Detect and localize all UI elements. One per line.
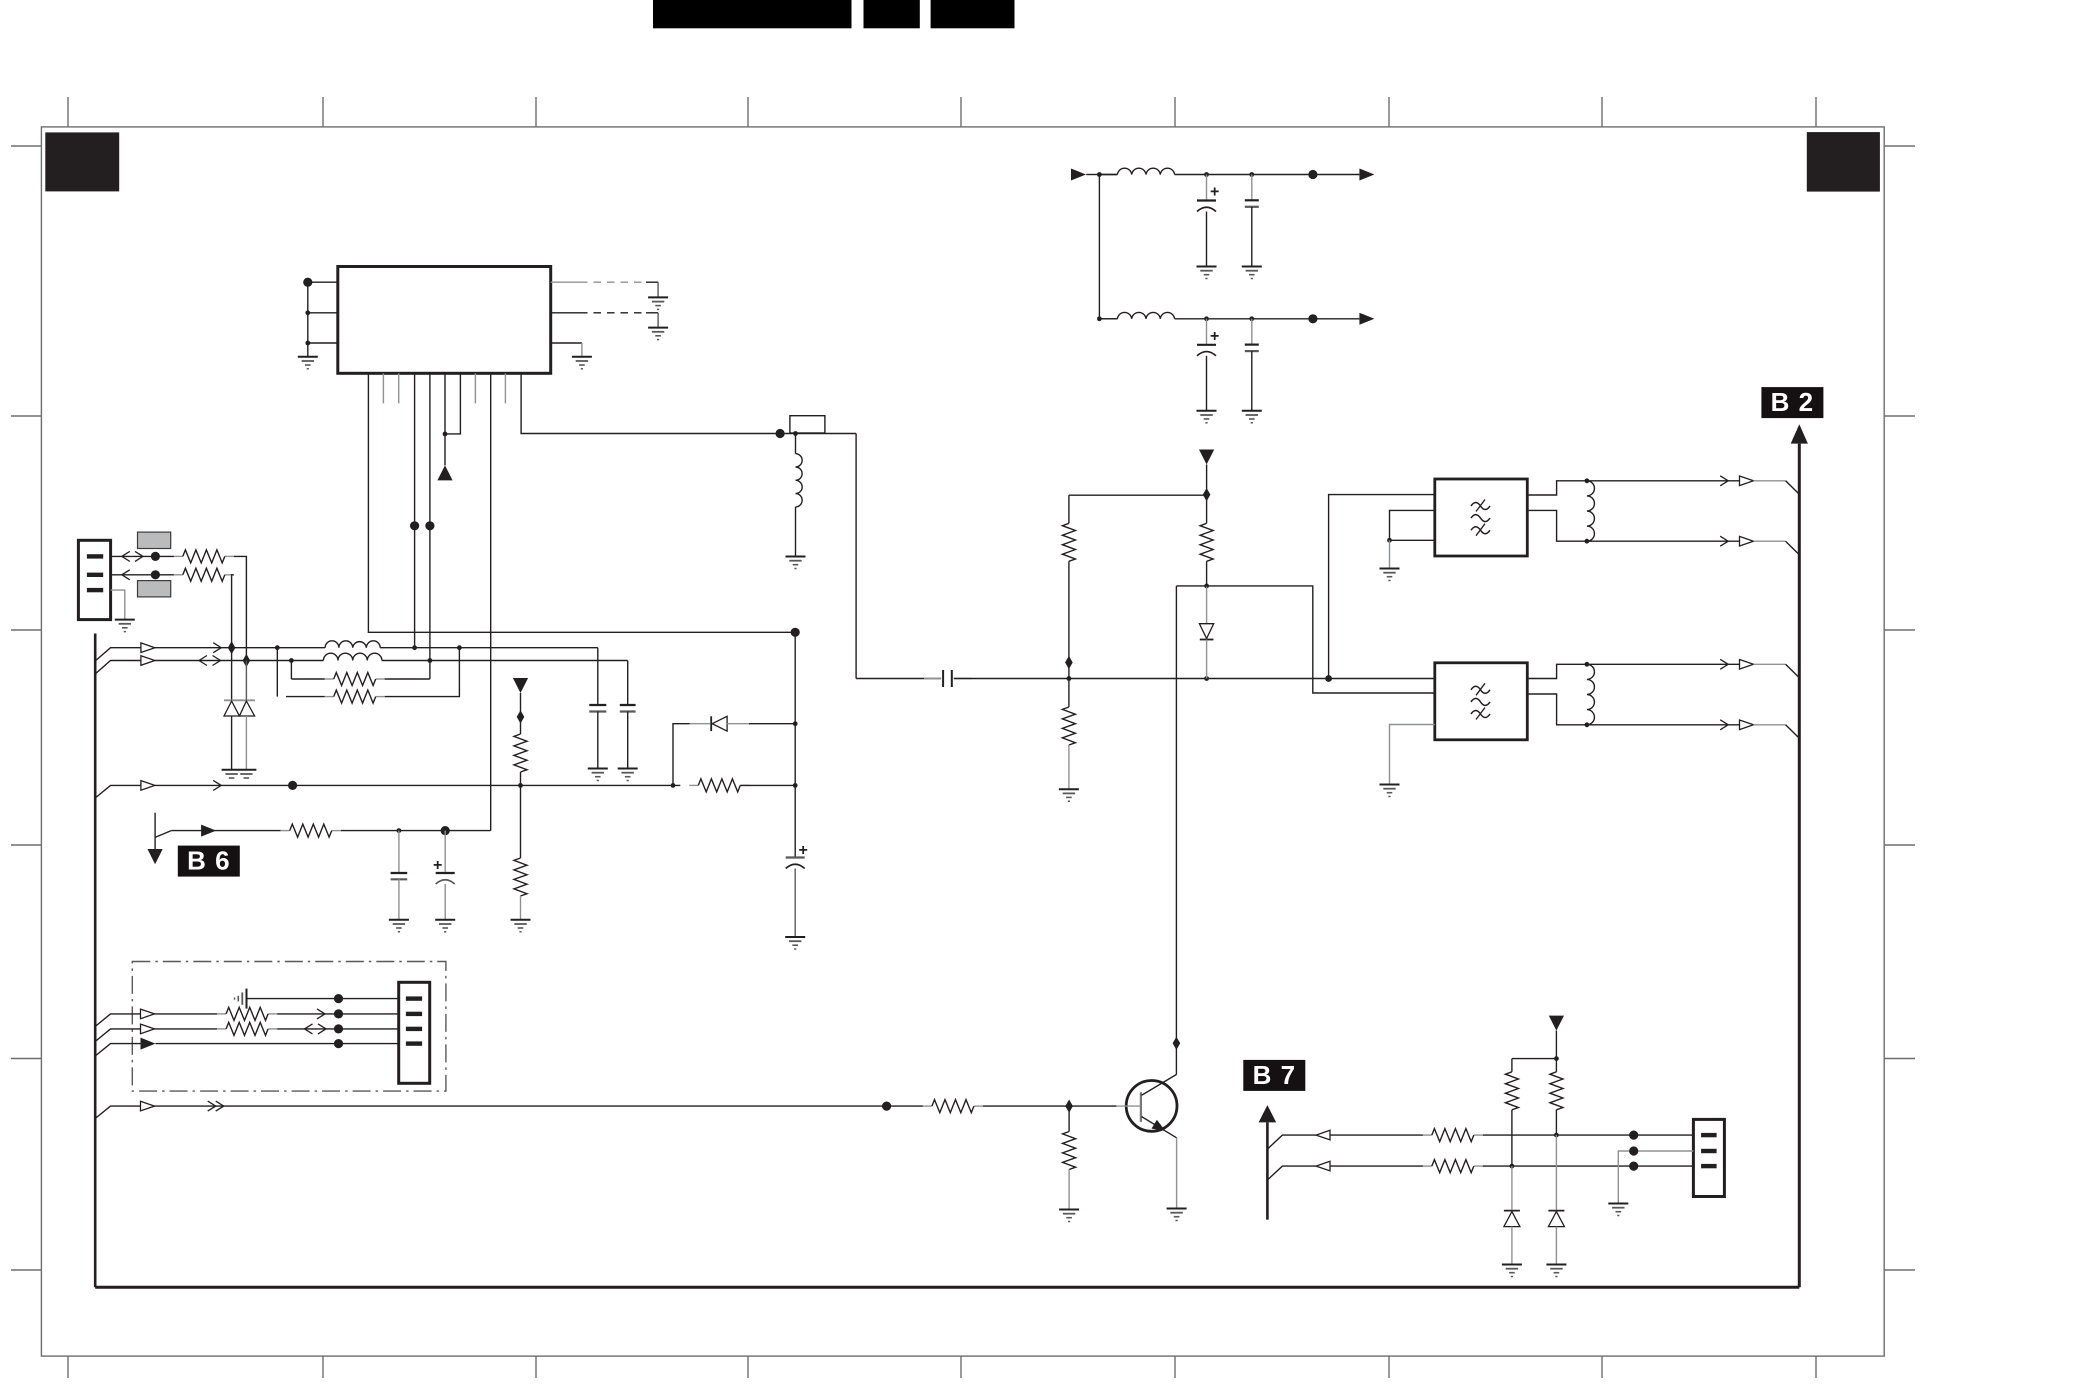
cable bundle bus <box>94 634 97 1288</box>
svg-text:B 6: B 6 <box>187 846 230 876</box>
resistor R7 series line3 <box>689 784 698 786</box>
inductor L7 <box>1117 168 1174 174</box>
wire FL2 gnd pin <box>1390 725 1435 785</box>
resistor R13 <box>1200 523 1213 561</box>
redaction box top-right corner <box>1807 132 1880 192</box>
resistor R10 <box>520 785 522 858</box>
connector J1 <box>78 540 110 619</box>
wire collector <box>1175 586 1177 1075</box>
ground G10 <box>1380 569 1400 581</box>
output arrow row 2 <box>1359 313 1374 325</box>
test diamond <box>517 710 525 723</box>
redaction bar top 3 <box>931 0 1015 28</box>
wire feed to B2 at 480.8 <box>1587 480 1740 482</box>
test diamond <box>1065 656 1073 669</box>
ground G18 <box>389 920 409 932</box>
wire R2 to line1 <box>232 575 234 648</box>
ground G20 <box>785 937 805 949</box>
wire J3 middle pin to ground <box>1618 1151 1693 1204</box>
connector J3 <box>1693 1119 1724 1196</box>
capacitor C3 electrolytic <box>1206 319 1208 345</box>
wire B7 line1 <box>1267 1135 1316 1149</box>
dual diode Z1 <box>231 648 233 701</box>
ground G11 <box>115 620 135 632</box>
wire fuse line to corner <box>780 433 856 435</box>
ground G27 sideways <box>235 989 247 1009</box>
U1 pin stub 8 <box>474 373 476 403</box>
arrow B7 up <box>1259 1105 1277 1122</box>
diode D2 <box>673 724 690 786</box>
test diamond line2 <box>243 654 251 667</box>
diode D3 <box>1511 1166 1513 1210</box>
wire U1 right pin B dashed <box>551 312 580 314</box>
wire U1 pin11 to fuse line <box>521 373 780 433</box>
wire U1 pin left 3 <box>308 342 338 344</box>
wire R1 to line2 <box>234 556 247 660</box>
resistor R9 <box>514 734 527 772</box>
wire emitter to ground <box>1176 1138 1178 1209</box>
redaction bar top 1 <box>653 0 852 28</box>
wire U1 pin6 supply arrow <box>444 373 446 465</box>
test diamond collector <box>1173 1037 1181 1050</box>
svg-text:+: + <box>1210 328 1219 345</box>
resistor R17 base to ground <box>1068 1106 1070 1131</box>
wire bottom B+ rail <box>95 1286 1799 1289</box>
inductor L3 choke to ground <box>795 434 797 454</box>
ground G16 <box>1059 789 1079 801</box>
wire FL1 in <box>1329 495 1435 679</box>
ground G15 <box>618 769 638 781</box>
filter FL2 <box>1435 663 1528 740</box>
wire J1 pin1 row <box>111 555 174 557</box>
wire main line <box>856 678 941 680</box>
U1 pin stub 2 <box>382 373 384 403</box>
ground G9 <box>786 557 806 569</box>
supply arrow down <box>513 678 528 693</box>
wire feed to B2 at 724.8 <box>1587 724 1740 726</box>
capacitor C1 electrolytic <box>1206 175 1208 201</box>
arrow B2 up <box>1791 424 1808 443</box>
U1 pin stub 10 <box>504 373 506 403</box>
wire J1 pin3 to ground <box>111 590 125 620</box>
wire line5 <box>95 1106 140 1118</box>
resistor R1 <box>174 555 183 557</box>
ground G2 <box>648 297 668 309</box>
wire U1 pin left 2 <box>308 312 338 314</box>
diode D4 <box>1555 1135 1557 1210</box>
wire J2 row2 <box>95 1014 140 1027</box>
wire U1 pin5 <box>429 373 431 679</box>
capacitor C6 <box>398 831 400 873</box>
supply arrow down <box>1549 1016 1564 1031</box>
capacitor C4 ceramic <box>1251 319 1253 345</box>
wire filter row 2 <box>1099 318 1117 320</box>
B6 tag <box>178 846 240 877</box>
resistor R12 <box>1068 679 1070 708</box>
ground G23 <box>1167 1209 1187 1221</box>
border frame <box>41 127 1884 1356</box>
resistor R8 <box>281 830 290 832</box>
wire U1 pin7 <box>445 373 460 434</box>
wire row1 to row2 <box>1098 175 1100 319</box>
wire node column <box>794 632 796 857</box>
wire FL1 out bottom <box>1527 510 1587 541</box>
capacitor C8 coupling <box>942 670 944 687</box>
ground G12 <box>222 769 257 771</box>
resistor R21 <box>1550 1072 1563 1110</box>
ground G25 <box>1502 1265 1522 1277</box>
inductor L6 <box>1587 664 1595 724</box>
resistor R4 parallel line1 <box>276 648 278 697</box>
diode D1 <box>1206 586 1208 624</box>
wire B7 line2 <box>1267 1166 1316 1180</box>
inductor L8 <box>1117 312 1174 318</box>
test diamond base <box>1065 1100 1073 1113</box>
ground G19 <box>435 920 455 932</box>
ground G1 <box>307 343 309 357</box>
ground G6 <box>1242 267 1262 279</box>
wire collector jog line <box>1176 586 1434 693</box>
wire U1 pin left 1 <box>308 281 338 283</box>
output arrow row 1 <box>1359 169 1374 181</box>
ground G7 <box>1197 411 1217 423</box>
shield box SH2 <box>138 581 171 597</box>
inductor L1 <box>325 641 380 648</box>
B7 tag <box>1243 1060 1305 1091</box>
resistor R2 <box>174 574 183 576</box>
arrow B6 down <box>154 813 156 849</box>
ground G21 <box>1380 785 1400 797</box>
connector J2 <box>399 982 430 1083</box>
filter FL1 <box>1435 479 1528 556</box>
resistor R18 <box>1423 1134 1432 1136</box>
wire U1 pin9 to B6 rail <box>490 373 492 830</box>
node left rail of U1 <box>307 282 309 343</box>
wire supply node A <box>1069 494 1207 496</box>
ground G14 <box>588 769 608 781</box>
wire J2 row4 <box>95 1044 140 1056</box>
wire J1 pin2 row <box>111 574 174 576</box>
capacitor C2 ceramic <box>1251 175 1253 201</box>
fuse F1 <box>790 416 825 433</box>
wire feed to B2 at 664.3 <box>1587 663 1740 665</box>
resistor R11 <box>1062 523 1075 561</box>
svg-text:+: + <box>433 857 442 874</box>
wire FL1 out top <box>1527 481 1587 495</box>
B2 tag <box>1761 387 1823 418</box>
inductor L5 <box>1587 481 1595 541</box>
ground G24 <box>1608 1204 1628 1216</box>
wire FL2 out bottom <box>1527 694 1587 725</box>
ground G8 <box>1242 411 1262 423</box>
IC U1 <box>338 267 551 374</box>
wire U1 right pin A dashed <box>551 281 580 283</box>
redaction bar top 2 <box>864 0 920 28</box>
svg-text:+: + <box>799 842 808 859</box>
svg-text:B 7: B 7 <box>1253 1060 1296 1090</box>
resistor R3 parallel line2 <box>290 661 292 680</box>
ground G22 <box>1059 1210 1079 1222</box>
resistor R19 <box>1423 1165 1432 1167</box>
wire filter row 1 <box>1099 174 1117 176</box>
ground G3 <box>648 328 668 340</box>
ground G4 <box>572 357 592 369</box>
inductor L2 <box>323 653 382 660</box>
wire feed to B2 at 541.2 <box>1587 540 1740 542</box>
wire B6 rail <box>171 830 281 832</box>
wire U1 pin4 <box>414 373 416 647</box>
wire B7 rail <box>1266 1122 1269 1219</box>
wire B2 rail <box>1798 444 1801 1288</box>
wire U1 pin1 to node <box>368 373 795 632</box>
wire J2 row3 <box>95 1029 140 1042</box>
svg-text:B 2: B 2 <box>1771 387 1814 417</box>
U1 pin stub 3 <box>398 373 400 403</box>
supply arrow down <box>1199 450 1214 465</box>
ground G5 <box>1197 267 1217 279</box>
svg-text:+: + <box>1210 184 1219 201</box>
capacitor C7 electrolytic <box>444 831 446 873</box>
wire J2 row1 <box>247 998 399 1000</box>
capacitor C2 on line2 <box>627 661 629 706</box>
ground G26 <box>1546 1265 1566 1277</box>
module outline dash-dot <box>132 962 446 1092</box>
capacitor C1 on line1 <box>597 648 599 705</box>
redaction box top-left corner <box>45 132 119 191</box>
shield box SH1 <box>138 532 171 548</box>
test diamond line1 <box>228 641 236 654</box>
resistor R15 <box>217 1028 226 1030</box>
resistor R20 <box>1505 1072 1518 1110</box>
resistor R16 series base <box>923 1105 932 1107</box>
capacitor C5 electrolytic <box>786 856 805 858</box>
transistor Q1 <box>1126 1081 1177 1132</box>
wire U1 right pin C <box>551 342 582 344</box>
input arrow row 1 <box>1071 169 1086 181</box>
wire FL1 gnd pins <box>1390 510 1435 540</box>
ground G17 <box>511 920 531 932</box>
resistor R14 <box>217 1013 226 1015</box>
wire line1 from bus <box>95 648 141 661</box>
test diamond <box>1203 488 1211 501</box>
wire to left branch <box>1512 1058 1557 1060</box>
wire line3 from bus <box>95 785 141 798</box>
wire down to coupling cap <box>855 434 857 679</box>
wire FL2 out top <box>1527 664 1587 678</box>
wire line2 from bus <box>95 661 141 675</box>
